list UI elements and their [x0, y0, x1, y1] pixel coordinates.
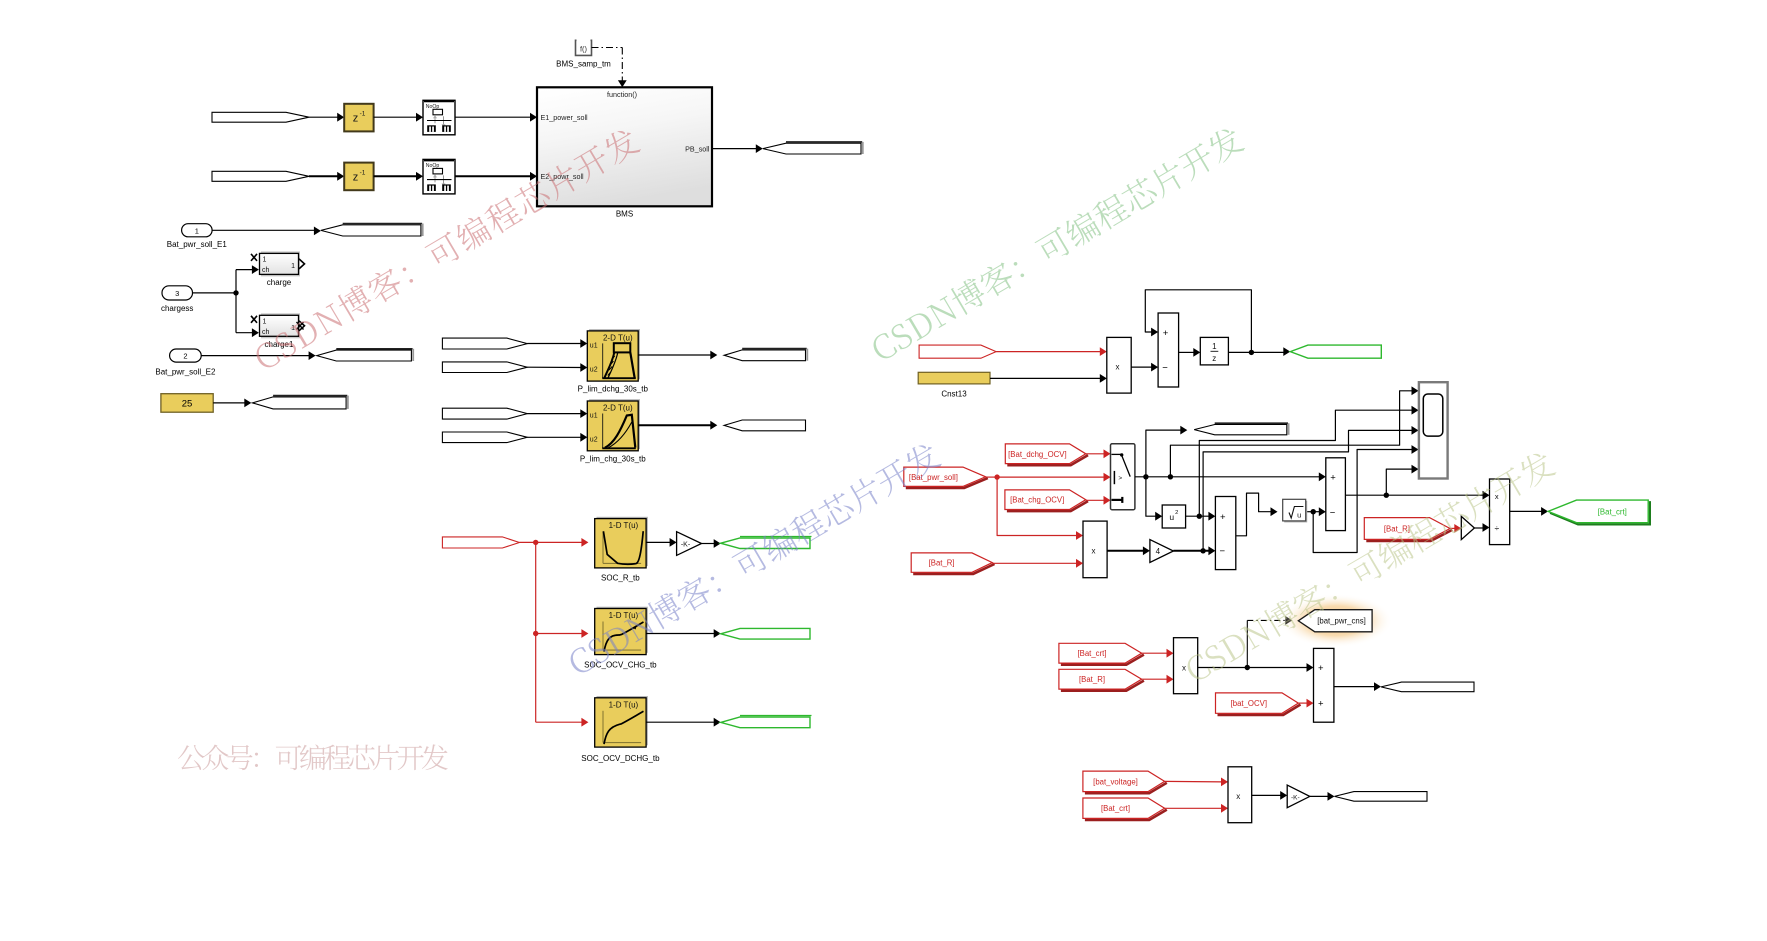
svg-text:[Bat_chg_OCV]: [Bat_chg_OCV]: [1010, 496, 1064, 505]
gain 4: [1150, 540, 1174, 563]
svg-text:3: 3: [175, 289, 179, 298]
wire red: [1165, 807, 1223, 809]
svg-text:x: x: [1116, 362, 1120, 371]
sum block S2 (+ -): [1215, 497, 1235, 570]
svg-text:2: 2: [1175, 510, 1178, 516]
svg-text:1: 1: [1212, 342, 1217, 351]
discrete unit delay 1/z: [1200, 337, 1228, 365]
gain -K- (bottom): [1287, 785, 1310, 808]
wire down to u2 block: [1146, 477, 1157, 516]
wire: [201, 355, 309, 357]
svg-text:SOC_OCV_CHG_tb: SOC_OCV_CHG_tb: [584, 661, 657, 670]
wire: [309, 175, 340, 177]
wire to scope port5: [1386, 469, 1412, 495]
from tag [Bat_R] (right): [1366, 530, 1452, 541]
wire: [1474, 527, 1483, 529]
wire: [638, 354, 711, 356]
goto tag out (unnamed bottom): [1335, 792, 1428, 802]
wire sum3 out: [1345, 494, 1483, 496]
wire chargess to junction: [193, 292, 237, 294]
unit delay Z2 (z-1): [344, 163, 373, 191]
from tag (unnamed) E2 input: [212, 171, 309, 181]
constant 25: [161, 394, 213, 413]
goto tag [Bat_crt] (green): [1550, 501, 1650, 524]
wire: [527, 343, 581, 345]
wire: [455, 116, 532, 118]
glow highlight: [1279, 594, 1393, 648]
wire red: [1142, 652, 1168, 654]
wire: [1228, 351, 1284, 353]
wire: [646, 721, 715, 723]
svg-text:[Bat_R]: [Bat_R]: [1079, 675, 1105, 684]
product block x (R2): [1083, 521, 1107, 578]
junction: [533, 540, 538, 545]
wire to charge1: [236, 332, 254, 334]
divide block x ÷: [1490, 479, 1510, 545]
svg-text:E1_power_soll: E1_power_soll: [541, 113, 589, 122]
svg-text:ch: ch: [262, 329, 270, 336]
svg-text:1: 1: [263, 319, 267, 326]
svg-text:[bat_voltage]: [bat_voltage]: [1093, 777, 1138, 786]
constant Cnst13: [918, 372, 990, 384]
svg-text:function(): function(): [607, 90, 637, 99]
wire: [1307, 511, 1320, 513]
wire red down to product: [997, 477, 1077, 535]
rate transition NoOp 1: [423, 100, 455, 135]
svg-text:P_lim_dchg_30s_tb: P_lim_dchg_30s_tb: [578, 385, 649, 394]
wire: [455, 175, 532, 177]
wire red vertical: [535, 542, 537, 722]
svg-text:BMS_samp_tm: BMS_samp_tm: [556, 60, 611, 69]
svg-text:1-D T(u): 1-D T(u): [609, 521, 639, 530]
2-D lookup table P_lim_chg_30s_tb: [589, 399, 640, 449]
gain (small triangle): [1461, 516, 1474, 539]
svg-text:1: 1: [291, 263, 295, 270]
wire PB_soll output: [712, 148, 757, 150]
wire red: [996, 351, 1101, 353]
svg-text:2: 2: [183, 352, 187, 361]
from tag [Bat_chg_OCV]: [1007, 501, 1088, 511]
switch block: [1111, 444, 1135, 510]
svg-text:Bat_pwr_soll_E1: Bat_pwr_soll_E1: [167, 240, 228, 249]
wire: [1131, 366, 1152, 368]
from tag [Bat_crt] (red): [1061, 655, 1144, 665]
goto tag mean out (green, unnamed): [1290, 345, 1381, 358]
wire: [1334, 686, 1375, 688]
wire: [213, 402, 245, 404]
svg-text:z: z: [1212, 354, 1216, 363]
goto tag sum4 out (unnamed): [1381, 682, 1474, 692]
from tag u1 chg (unnamed): [442, 408, 527, 419]
svg-text:[Bat_crt]: [Bat_crt]: [1077, 649, 1106, 658]
svg-text:u2: u2: [590, 437, 598, 444]
junction: [1197, 514, 1202, 519]
svg-text:Cnst13: Cnst13: [941, 389, 967, 398]
wire: [309, 116, 340, 118]
wire: [527, 366, 581, 368]
inport 3 chargess: [162, 286, 193, 300]
junction: [1249, 350, 1254, 355]
wire product to gain4: [1107, 550, 1144, 552]
goto tag OCV_DCHG out (green, unnamed): [721, 717, 810, 728]
from tag (unnamed) E1 input: [212, 112, 309, 122]
subsystem charge: [261, 251, 300, 276]
svg-text:x: x: [1236, 792, 1240, 801]
svg-text:u2: u2: [590, 366, 598, 373]
wire: [1179, 351, 1195, 353]
svg-text:[bat_OCV]: [bat_OCV]: [1231, 699, 1267, 708]
svg-text:-1: -1: [360, 111, 366, 118]
wire gain4 to sum2 minus: [1173, 550, 1209, 552]
wire: [1186, 515, 1210, 517]
wire red: [986, 476, 998, 478]
wire dash-dot function-call: [592, 47, 623, 49]
svg-text:[Bat_crt]: [Bat_crt]: [1101, 804, 1130, 813]
watermark CSDN lavender diagonal: [565, 439, 943, 678]
svg-text:chargess: chargess: [161, 304, 193, 313]
goto tag E1 (unnamed): [321, 225, 421, 236]
sum block S1 (+ -): [1158, 313, 1179, 387]
svg-text:SOC_R_tb: SOC_R_tb: [601, 573, 640, 582]
svg-text:x: x: [1182, 663, 1186, 672]
svg-text:25: 25: [182, 398, 193, 409]
from tag (red, unnamed): [919, 345, 996, 358]
svg-text:1: 1: [195, 226, 199, 235]
junction: [1245, 665, 1250, 670]
svg-text:[Bat_dchg_OCV]: [Bat_dchg_OCV]: [1008, 450, 1067, 459]
from tag [Bat_R] (left): [913, 564, 994, 574]
junction: [1311, 509, 1316, 514]
wire to charge: [235, 270, 237, 333]
wire red: [519, 541, 535, 543]
unit delay Z1 (z-1): [344, 104, 373, 132]
math function u^2: [1162, 505, 1185, 528]
svg-text:P_lim_chg_30s_tb: P_lim_chg_30s_tb: [580, 454, 646, 463]
wire: [646, 541, 670, 543]
wire sqrt to scope port4: [1313, 450, 1412, 553]
wire red: [992, 562, 1077, 564]
sum block S4 (+ +): [1314, 648, 1334, 722]
subsystem charge1: [261, 313, 300, 338]
wire red: [1086, 499, 1105, 501]
wire red: [536, 541, 583, 543]
inport 2 Bat_pwr_soll_E2: [170, 349, 202, 362]
svg-text:>: >: [1118, 475, 1122, 482]
from tag SOC (unnamed, red): [442, 537, 519, 548]
wire: [527, 413, 581, 415]
svg-text:[Bat_crt]: [Bat_crt]: [1598, 507, 1627, 516]
wire: [212, 229, 315, 231]
svg-text:1: 1: [263, 257, 267, 264]
wire: [374, 175, 418, 177]
svg-text:ch: ch: [262, 267, 270, 274]
svg-text:+: +: [1330, 472, 1336, 483]
from tag [bat_voltage]: [1085, 783, 1167, 793]
junction: [1168, 474, 1173, 479]
wire: [374, 116, 418, 118]
svg-text:BMS: BMS: [616, 210, 633, 219]
svg-text:−: −: [1162, 362, 1168, 373]
wire red: [997, 476, 1104, 478]
goto tag PB_soll (unnamed): [763, 143, 861, 154]
wire red: [1298, 702, 1308, 704]
wire: [646, 633, 715, 635]
wire: [1510, 510, 1543, 512]
scope block: [1419, 382, 1448, 478]
svg-text:PB_soll: PB_soll: [685, 144, 710, 153]
function-call generator f() BMS_samp_tm: [576, 40, 592, 55]
from tag [Bat_crt] (red bottom): [1085, 810, 1167, 820]
svg-text:u1: u1: [590, 342, 598, 349]
wire to scope port3: [1203, 430, 1412, 550]
wire: [702, 543, 716, 545]
svg-text:−: −: [1330, 507, 1336, 518]
wire red: [536, 721, 583, 723]
svg-text:+: +: [1220, 512, 1226, 523]
sum block S3 (+ -): [1326, 458, 1346, 531]
svg-text:-K-: -K-: [1291, 794, 1300, 801]
1-D lookup table SOC_R_tb: [597, 517, 648, 566]
1-D lookup table SOC_OCV_DCHG_tb: [597, 696, 648, 745]
2-D lookup table P_lim_dchg_30s_tb: [589, 329, 640, 379]
svg-text:u1: u1: [590, 413, 598, 420]
svg-text:Bat_pwr_soll_E2: Bat_pwr_soll_E2: [155, 367, 216, 376]
svg-text:÷: ÷: [1494, 523, 1499, 533]
svg-text:x: x: [1092, 546, 1096, 555]
goto tag chg out (unnamed): [724, 420, 805, 431]
svg-text:u: u: [1169, 512, 1174, 522]
wire: [1310, 795, 1329, 797]
wire: [1252, 794, 1282, 796]
watermark 公众号 pink bottom-left: [178, 744, 448, 770]
gain -K-: [677, 532, 702, 556]
wire dash-dot to bat_pwr_cns: [1246, 620, 1248, 667]
junction: [233, 290, 238, 295]
wire u2 to scope port2: [1199, 410, 1412, 516]
svg-text:[bat_pwr_cns]: [bat_pwr_cns]: [1317, 617, 1366, 626]
svg-text:2-D T(u): 2-D T(u): [603, 404, 633, 413]
rate transition NoOp 2: [423, 159, 455, 194]
from tag [bat_OCV]: [1218, 705, 1301, 715]
svg-text:charge: charge: [267, 278, 292, 287]
svg-text:u: u: [1297, 511, 1301, 520]
wire red: [1450, 527, 1456, 529]
from tag u2 chg (unnamed): [442, 432, 527, 443]
inport 1 Bat_pwr_soll_E1: [182, 224, 213, 237]
wire: [990, 377, 1101, 379]
watermark CSDN green diagonal: [867, 123, 1246, 364]
wire: [1198, 667, 1308, 669]
wire: [527, 436, 581, 438]
goto tag OCV_CHG out (green, unnamed): [721, 628, 810, 639]
goto tag 25 (unnamed): [252, 397, 346, 409]
svg-text:4: 4: [1156, 547, 1161, 556]
wire switch output: [1135, 476, 1320, 478]
wire: [638, 424, 711, 426]
junction: [1143, 474, 1148, 479]
wire sum2 zigzag to sqrt: [1236, 493, 1272, 536]
svg-text:z: z: [353, 171, 359, 183]
svg-text:2-D T(u): 2-D T(u): [603, 333, 633, 342]
from tag [Bat_R] (red): [1061, 681, 1144, 691]
wire red: [1142, 678, 1168, 680]
goto tag E2 (unnamed): [317, 350, 412, 361]
junction: [1384, 493, 1389, 498]
wire feedback loop: [1145, 290, 1251, 353]
svg-text:x: x: [1495, 492, 1499, 501]
junction: [533, 631, 538, 636]
goto tag dchg out (unnamed): [724, 350, 805, 361]
junction: [1200, 548, 1205, 553]
goto tag switch out (unnamed): [1194, 425, 1287, 435]
from tag u2 dchg (unnamed): [442, 362, 527, 373]
svg-text:1-D T(u): 1-D T(u): [609, 700, 639, 709]
svg-text:+: +: [1318, 663, 1324, 674]
wire scope port1 from switch line: [1170, 391, 1412, 477]
wire red: [1086, 453, 1105, 455]
subsystem BMS: [537, 87, 712, 206]
svg-text:+: +: [1318, 699, 1324, 710]
math function sqrt: [1284, 501, 1307, 523]
watermark CSDN pink diagonal: [250, 125, 641, 374]
wire red: [536, 633, 583, 635]
goto tag [bat_pwr_cns]: [1298, 610, 1372, 632]
svg-text:-K-: -K-: [681, 541, 691, 548]
from tag u1 dchg (unnamed): [442, 338, 527, 349]
from tag [Bat_pwr_soll]: [906, 478, 988, 488]
product block x (R4): [1228, 767, 1252, 823]
svg-text:SOC_OCV_DCHG_tb: SOC_OCV_DCHG_tb: [581, 754, 660, 763]
product block x (R1): [1107, 337, 1131, 393]
goto tag SOC_R out (green, unnamed): [721, 538, 810, 549]
watermark CSDN pale green diagonal: [1182, 448, 1558, 686]
wire red: [1165, 780, 1223, 783]
svg-text:1-D T(u): 1-D T(u): [609, 611, 639, 620]
svg-text:+: +: [1163, 328, 1169, 339]
junction: [994, 474, 999, 479]
from tag [Bat_dchg_OCV]: [1007, 455, 1088, 465]
svg-text:−: −: [1220, 546, 1226, 557]
svg-text:f(): f(): [580, 45, 588, 54]
svg-text:-1: -1: [360, 169, 366, 176]
svg-text:z: z: [353, 113, 359, 125]
1-D lookup table SOC_OCV_CHG_tb: [597, 607, 648, 653]
product block x (R3): [1174, 638, 1198, 694]
svg-text:[Bat_R]: [Bat_R]: [929, 559, 955, 568]
wire to goto tag (white): [1146, 430, 1182, 477]
